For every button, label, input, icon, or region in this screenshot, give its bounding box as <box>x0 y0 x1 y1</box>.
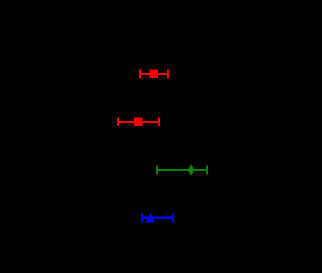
green error bar (thin-diamond marker) <box>156 164 208 175</box>
red error bar 1 (top, square marker) <box>139 70 169 79</box>
blue error bar (triangle-up marker) <box>141 213 174 223</box>
red error bar 2 (square marker) <box>117 118 160 127</box>
